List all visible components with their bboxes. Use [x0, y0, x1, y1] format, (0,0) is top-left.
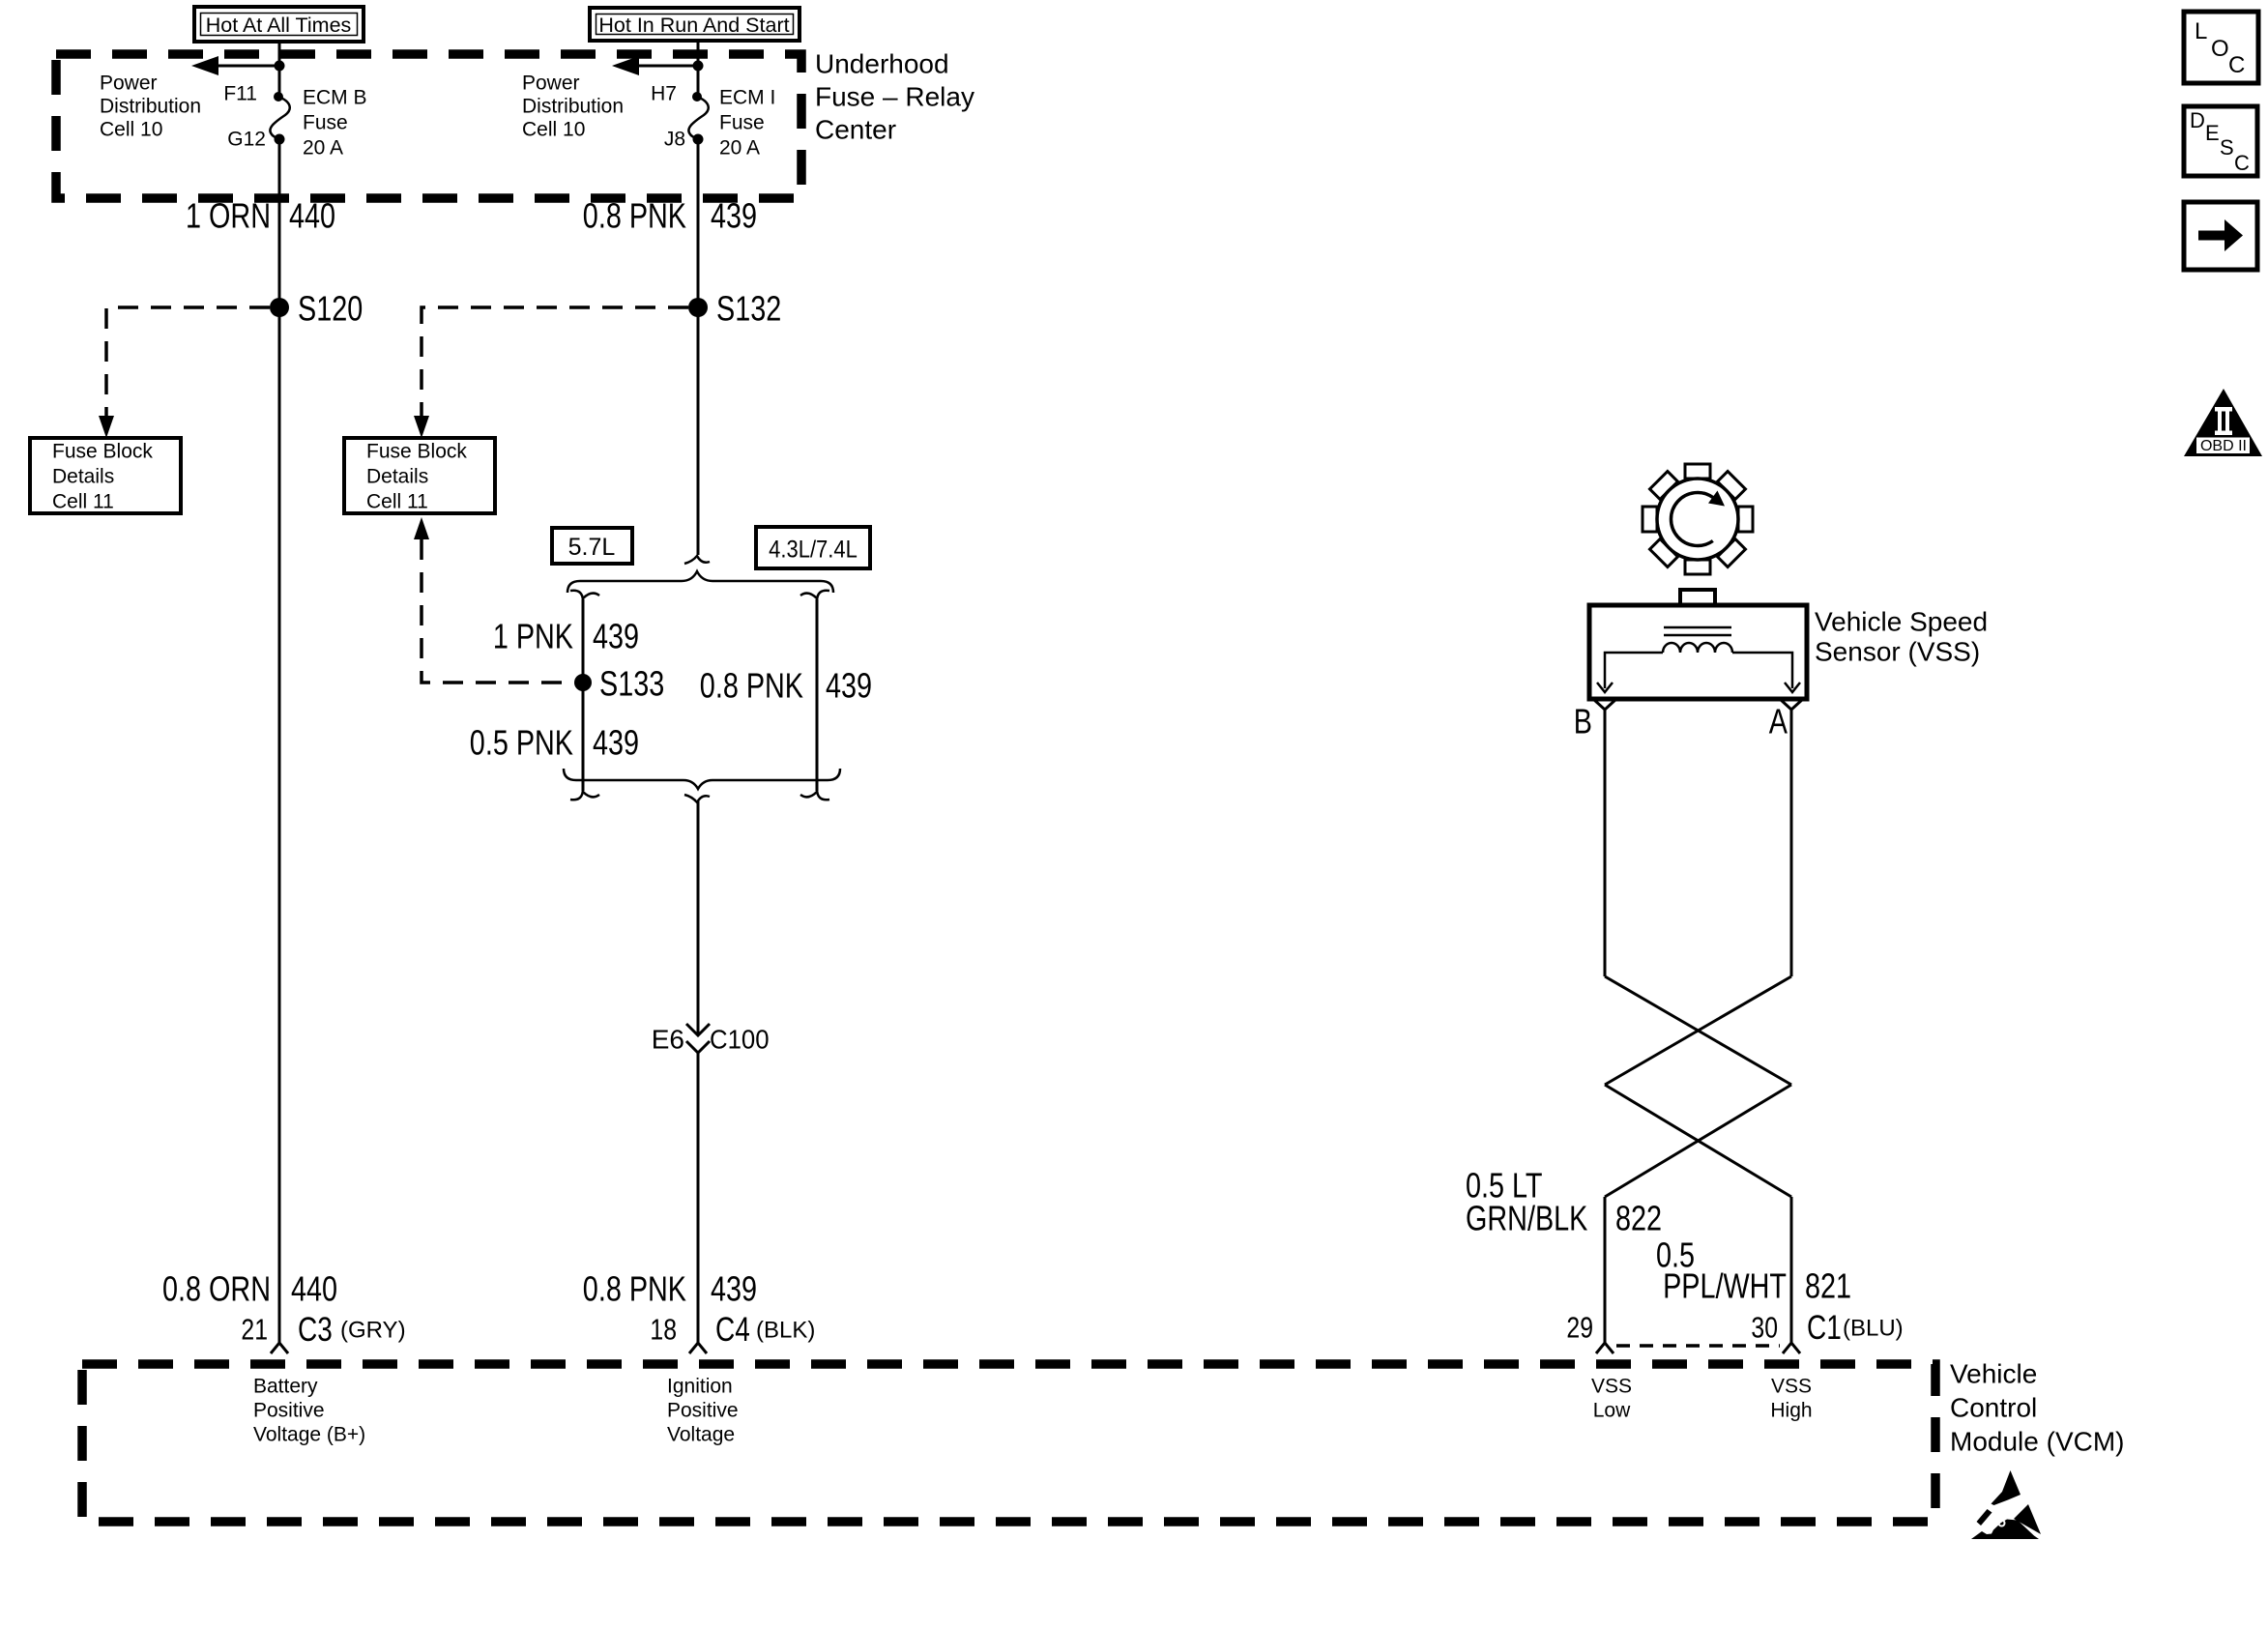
svg-text:Fuse: Fuse — [719, 112, 765, 134]
Underhood Fuse-Relay Center dashed box — [56, 54, 801, 198]
VSS pin A — [1769, 699, 1803, 741]
wire label "0.5 LT GRN/BLK | 822" — [1466, 1166, 1662, 1238]
svg-text:1 ORN: 1 ORN — [186, 196, 271, 236]
svg-text:Details: Details — [366, 466, 428, 488]
Vehicle Control Module dashed box — [82, 1364, 1935, 1522]
label "VSS High" — [1770, 1376, 1812, 1422]
label "Underhood Fuse - Relay Center" — [815, 49, 974, 145]
svg-text:439: 439 — [593, 723, 639, 763]
svg-text:C1: C1 — [1807, 1308, 1842, 1347]
svg-text:Center: Center — [815, 115, 896, 145]
svg-text:C100: C100 — [710, 1024, 770, 1054]
svg-text:Control: Control — [1950, 1393, 2037, 1423]
wire label "0.5 PNK | 439" — [470, 723, 639, 763]
svg-text:0.8 ORN: 0.8 ORN — [162, 1269, 271, 1309]
svg-text:29: 29 — [1566, 1311, 1593, 1344]
svg-text:Battery: Battery — [253, 1376, 318, 1398]
svg-text:Cell 10: Cell 10 — [522, 119, 585, 141]
wire label "0.8 PNK | 439" (4.3L branch) — [700, 666, 872, 706]
svg-text:Cell 11: Cell 11 — [52, 491, 114, 513]
svg-text:5.7L: 5.7L — [568, 534, 616, 561]
svg-text:Module (VCM): Module (VCM) — [1950, 1427, 2124, 1457]
svg-text:Vehicle Speed: Vehicle Speed — [1815, 607, 1988, 637]
svg-text:Cell 10: Cell 10 — [100, 119, 162, 141]
svg-text:822: 822 — [1615, 1199, 1662, 1238]
splice S120 — [270, 298, 289, 317]
svg-text:GRN/BLK: GRN/BLK — [1466, 1199, 1588, 1238]
svg-text:OBD II: OBD II — [2200, 438, 2247, 454]
svg-text:(BLK): (BLK) — [756, 1318, 815, 1344]
wire label "0.8 ORN | 440" (lower) — [162, 1269, 337, 1309]
svg-text:439: 439 — [826, 666, 872, 706]
svg-text:Ignition: Ignition — [667, 1376, 733, 1398]
svg-text:C4: C4 — [715, 1310, 750, 1349]
svg-text:Fuse Block: Fuse Block — [52, 441, 153, 463]
wire start curl below engine split brace — [684, 795, 710, 802]
svg-text:Voltage (B+): Voltage (B+) — [253, 1424, 365, 1446]
box "Fuse Block Details Cell 11" (left) — [30, 438, 181, 513]
svg-text:E: E — [2205, 121, 2220, 145]
svg-text:0.8 PNK: 0.8 PNK — [583, 1269, 686, 1309]
engine option box "5.7L" — [552, 528, 632, 564]
wire label "0.8 PNK | 439" — [583, 196, 757, 236]
svg-text:1 PNK: 1 PNK — [493, 617, 573, 656]
svg-text:Vehicle: Vehicle — [1950, 1359, 2037, 1389]
svg-text:VSS: VSS — [1771, 1376, 1812, 1398]
dashed reference from S133 up to Fuse Block Details box — [414, 517, 566, 683]
svg-text:S133: S133 — [599, 664, 664, 704]
svg-text:18: 18 — [650, 1313, 677, 1346]
arrow to Power Distribution (right circuit) — [612, 56, 704, 75]
svg-text:20 A: 20 A — [303, 137, 343, 160]
wire label "0.5 PPL/WHT | 821" — [1656, 1236, 1851, 1306]
svg-text:C3: C3 — [298, 1310, 333, 1349]
box "Fuse Block Details Cell 11" (center) — [344, 438, 495, 513]
svg-text:ECM I: ECM I — [719, 87, 775, 109]
connector C1 dashed joining line — [1616, 1344, 1780, 1348]
svg-text:Positive: Positive — [253, 1400, 325, 1422]
twisted pair wires VSS low/high — [1605, 710, 1791, 1343]
svg-text:High: High — [1770, 1400, 1812, 1422]
arrow to Power Distribution (left circuit) — [191, 56, 285, 75]
wire label "1 PNK | 439" — [493, 617, 639, 656]
splice S133 — [574, 674, 592, 691]
forward arrow icon — [2184, 202, 2257, 270]
wire label "0.8 PNK | 439" (lower) — [583, 1269, 757, 1309]
fuse ECM I 20 A (H7/J8) — [688, 92, 708, 145]
svg-text:O: O — [2211, 36, 2229, 62]
svg-text:ECM B: ECM B — [303, 87, 367, 109]
svg-text:0.5 PNK: 0.5 PNK — [470, 723, 573, 763]
pin 29 — [1566, 1311, 1614, 1353]
label "Power Distribution Cell 10" (right) — [522, 73, 624, 141]
svg-text:439: 439 — [711, 1269, 757, 1309]
svg-text:E6: E6 — [652, 1025, 684, 1055]
label "ECM I Fuse 20 A" — [719, 87, 775, 160]
svg-text:Hot In Run And Start: Hot In Run And Start — [598, 14, 789, 37]
svg-text:439: 439 — [593, 617, 639, 656]
svg-text:(BLU): (BLU) — [1843, 1316, 1904, 1342]
svg-text:Sensor (VSS): Sensor (VSS) — [1815, 637, 1980, 667]
DESC reference icon — [2184, 106, 2257, 176]
svg-text:(GRY): (GRY) — [340, 1318, 406, 1344]
svg-text:B: B — [1574, 702, 1592, 741]
svg-text:F11: F11 — [223, 83, 257, 105]
label "Power Distribution Cell 10" (left) — [100, 73, 201, 141]
wire 0.8 PNK 439 (fuse J8 down to engine split) — [697, 139, 700, 555]
VSS reluctor gear icon — [1619, 441, 1775, 596]
wire from Hot In Run And Start into fuse H7 — [697, 41, 700, 98]
ESD sensitive device symbol — [1971, 1470, 2041, 1539]
LOC reference icon — [2184, 12, 2258, 83]
svg-text:821: 821 — [1805, 1266, 1851, 1306]
svg-text:S120: S120 — [298, 289, 363, 329]
pin 30 / connector C1 (BLU) — [1751, 1308, 1903, 1353]
svg-text:Fuse Block: Fuse Block — [366, 441, 467, 463]
svg-text:439: 439 — [711, 196, 757, 236]
svg-text:Underhood: Underhood — [815, 49, 949, 79]
wire 1 ORN 440 (vertical, fuse to VCM pin 21) — [278, 139, 281, 1343]
label "Vehicle Control Module (VCM)" — [1950, 1359, 2124, 1457]
pin 18 / connector C4 (BLK) — [650, 1310, 815, 1353]
wire from Hot At All Times into fuse F11 — [278, 42, 281, 98]
svg-text:Cell 11: Cell 11 — [366, 491, 428, 513]
wire end curl above engine split brace — [684, 556, 710, 564]
svg-text:Voltage: Voltage — [667, 1424, 735, 1446]
label "Battery Positive Voltage (B+)" — [253, 1376, 365, 1446]
svg-text:Power: Power — [522, 73, 580, 95]
fuse ECM B 20 A (F11/G12) — [270, 92, 289, 145]
svg-text:30: 30 — [1751, 1311, 1778, 1344]
svg-text:G12: G12 — [227, 129, 266, 151]
svg-text:C: C — [2234, 151, 2250, 175]
label "Ignition Positive Voltage" — [667, 1376, 739, 1446]
VSS pin B — [1574, 699, 1616, 741]
svg-text:0.8 PNK: 0.8 PNK — [583, 196, 686, 236]
svg-text:Power: Power — [100, 73, 158, 95]
svg-text:Low: Low — [1593, 1400, 1631, 1422]
svg-text:A: A — [1769, 702, 1788, 741]
engine split bottom brace — [564, 769, 840, 789]
splice S132 — [688, 298, 708, 317]
svg-text:0.8 PNK: 0.8 PNK — [700, 666, 803, 706]
5.7L branch wire 1 PNK / 0.5 PNK 439 with S133 — [570, 591, 599, 800]
label box "Hot At All Times" — [194, 7, 363, 42]
svg-text:H7: H7 — [651, 83, 677, 105]
dashed reference from S120 to Fuse Block Details — [99, 307, 270, 438]
dashed reference from S132 to Fuse Block Details — [414, 307, 688, 438]
svg-text:Positive: Positive — [667, 1400, 739, 1422]
4.3L/7.4L branch wire 0.8 PNK 439 — [800, 591, 829, 800]
svg-text:Fuse: Fuse — [303, 112, 348, 134]
svg-text:20 A: 20 A — [719, 137, 760, 160]
wire 0.8 PNK 439 from C100 to VCM pin 18 — [697, 1053, 700, 1343]
svg-text:L: L — [2195, 18, 2207, 44]
svg-text:440: 440 — [291, 1269, 337, 1309]
label "ECM B Fuse 20 A" — [303, 87, 367, 160]
wire label "1 ORN | 440" — [186, 196, 335, 236]
engine option box "4.3L/7.4L" — [756, 527, 870, 568]
svg-text:Fuse – Relay: Fuse – Relay — [815, 82, 974, 112]
svg-text:21: 21 — [241, 1313, 268, 1346]
svg-text:Details: Details — [52, 466, 114, 488]
svg-text:PPL/WHT: PPL/WHT — [1663, 1266, 1787, 1306]
label box "Hot In Run And Start" — [590, 8, 800, 41]
in-line connector C100 pin E6 — [652, 1024, 770, 1055]
vehicle speed sensor VSS body — [1589, 590, 1807, 699]
engine split top brace — [567, 571, 833, 593]
svg-text:Distribution: Distribution — [100, 96, 201, 118]
svg-text:440: 440 — [289, 196, 335, 236]
svg-text:D: D — [2190, 108, 2205, 132]
svg-text:S: S — [2220, 135, 2234, 160]
svg-text:VSS: VSS — [1591, 1376, 1632, 1398]
svg-text:Hot At All Times: Hot At All Times — [206, 14, 352, 37]
pin 21 / connector C3 (GRY) — [241, 1310, 405, 1353]
svg-text:Distribution: Distribution — [522, 96, 624, 118]
svg-text:C: C — [2228, 52, 2245, 78]
svg-text:J8: J8 — [664, 129, 685, 151]
label "VSS Low" — [1591, 1376, 1632, 1422]
wire 0.8 PNK 439 down to C100 — [697, 800, 700, 1034]
OBD II symbol — [2184, 389, 2262, 456]
svg-text:S132: S132 — [716, 289, 781, 329]
label "Vehicle Speed Sensor (VSS)" — [1815, 607, 1988, 667]
svg-text:4.3L/7.4L: 4.3L/7.4L — [769, 536, 858, 563]
